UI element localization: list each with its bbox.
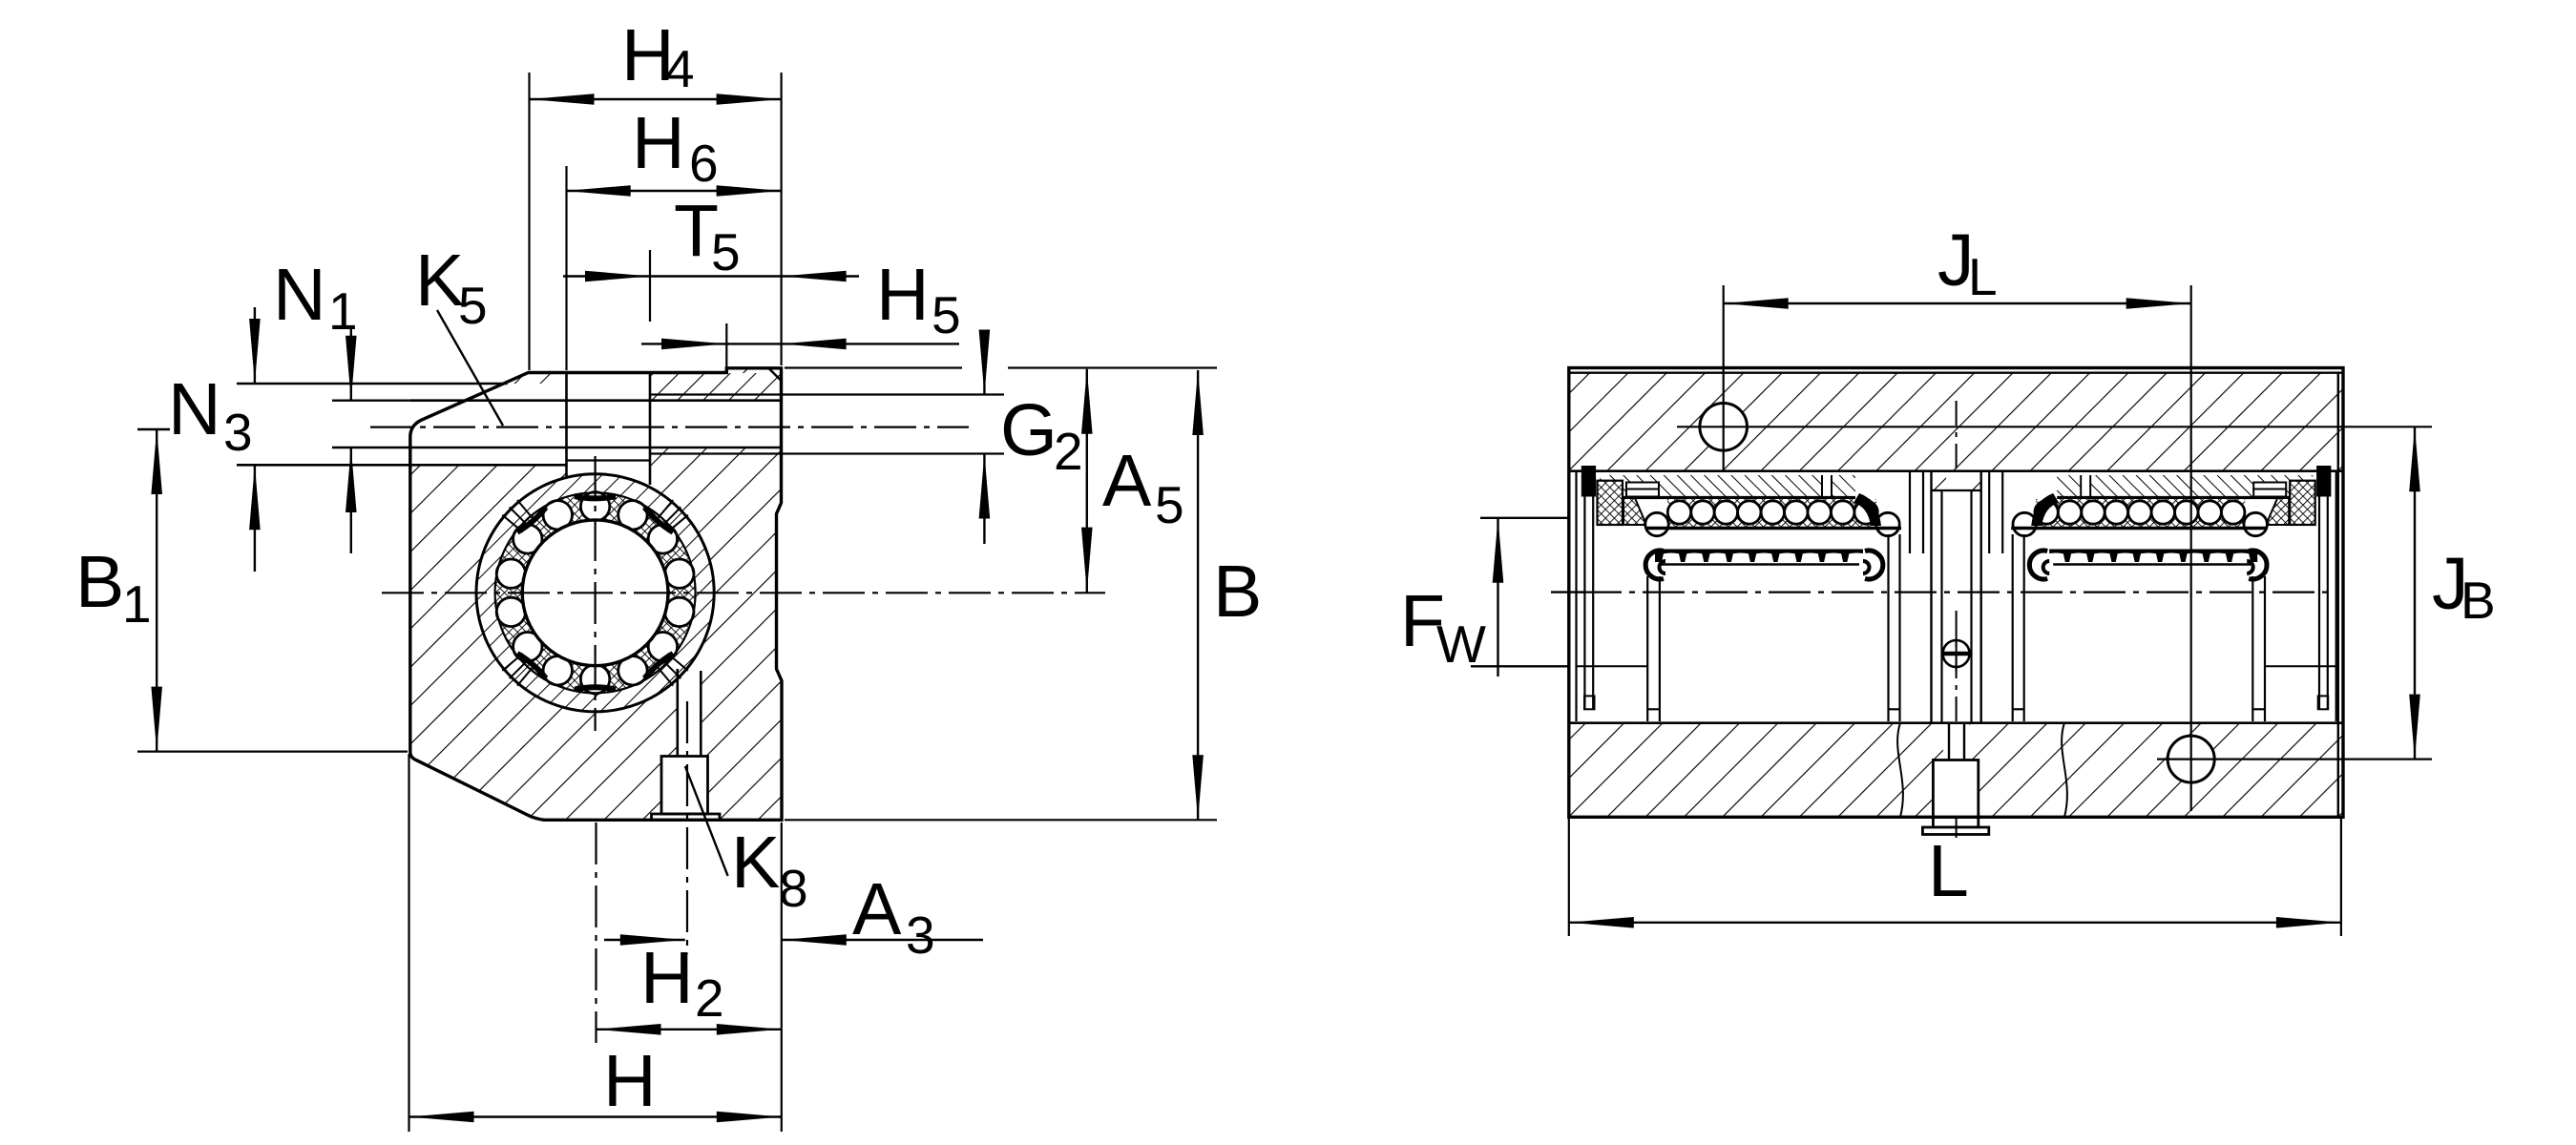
svg-text:1: 1 [328,281,358,341]
svg-text:3: 3 [223,403,253,462]
svg-text:N: N [273,254,326,336]
svg-text:2: 2 [695,968,724,1028]
svg-text:A: A [1102,440,1152,522]
svg-text:H: H [876,254,930,336]
svg-text:H: H [603,1040,657,1122]
svg-text:6: 6 [689,134,719,193]
svg-text:B: B [2461,571,2496,630]
svg-text:5: 5 [711,222,741,281]
svg-text:L: L [1928,830,1969,912]
svg-text:H: H [640,937,694,1019]
svg-text:3: 3 [906,906,935,965]
svg-text:K: K [731,822,780,904]
svg-text:L: L [1968,247,1998,306]
svg-text:B: B [75,541,124,623]
svg-text:N: N [168,368,221,450]
svg-text:2: 2 [1054,422,1083,481]
svg-text:K: K [415,239,464,322]
svg-text:H: H [632,102,685,184]
svg-text:G: G [1000,389,1058,471]
svg-text:5: 5 [932,285,961,344]
svg-text:W: W [1436,614,1486,674]
svg-text:A: A [852,868,902,950]
svg-text:1: 1 [122,574,152,634]
svg-text:5: 5 [458,276,488,335]
svg-text:5: 5 [1155,475,1184,534]
svg-text:8: 8 [779,859,808,918]
svg-text:B: B [1213,551,1262,633]
svg-text:4: 4 [665,39,695,98]
